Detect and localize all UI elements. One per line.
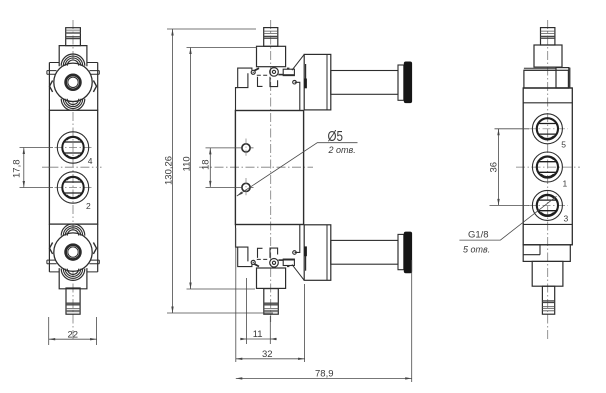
centerline horizontal center view — [199, 166, 313, 168]
re-draw crosshairs over body fill — [55, 148, 92, 188]
body (right view) — [523, 88, 572, 245]
body (center view) — [235, 111, 303, 225]
svg-text:1: 1 — [563, 178, 568, 188]
svg-text:4: 4 — [88, 156, 93, 166]
dimension 11 — [240, 278, 277, 344]
step under B — [270, 77, 278, 87]
side chevrons — [50, 81, 97, 92]
pivot B — [270, 68, 279, 77]
svg-text:110: 110 — [182, 156, 193, 171]
pivot A — [251, 70, 255, 74]
right housing step — [295, 82, 300, 110]
port 4 (left view) — [57, 132, 88, 163]
stem bottom (center view) — [264, 289, 279, 315]
svg-text:36: 36 — [489, 162, 500, 173]
dimension 22 (left view) — [49, 317, 97, 345]
lever rect — [283, 69, 294, 75]
centerline vertical center view — [270, 20, 272, 322]
dimension 18 — [201, 148, 254, 188]
assembly bottom — [523, 87, 572, 89]
stem top — [66, 28, 81, 46]
top assembly (right view) — [523, 28, 572, 88]
port 2 (left view) — [57, 172, 88, 203]
knob inner rings — [66, 75, 81, 90]
port 1 — [532, 152, 562, 182]
flange — [398, 65, 404, 100]
wide tier — [524, 70, 569, 88]
raised right rect — [556, 68, 569, 88]
dimension 130,26 — [164, 29, 274, 313]
centerline horizontal right view — [516, 166, 580, 168]
svg-text:11: 11 — [253, 329, 263, 340]
svg-text:18: 18 — [201, 159, 212, 170]
narrow block bottom — [532, 261, 563, 286]
port 2 crosshair — [55, 187, 92, 189]
hole 1 — [242, 144, 250, 152]
body (left view) — [49, 110, 97, 224]
left bracket — [236, 68, 252, 110]
plate — [524, 68, 556, 70]
svg-text:5 отв.: 5 отв. — [463, 244, 490, 254]
divider top — [523, 102, 572, 104]
bracket lines — [49, 62, 97, 64]
svg-text:78,9: 78,9 — [315, 368, 334, 379]
centerline horizontal left view — [42, 166, 104, 168]
black cap — [404, 62, 412, 104]
plunger cylinder — [331, 71, 398, 95]
bottom assembly (right view) — [523, 245, 572, 314]
port 4 crosshair — [55, 147, 92, 149]
port 5 crosshair — [528, 128, 568, 130]
dimension 17.8 (left view) — [12, 148, 54, 188]
top knob assembly (left view) — [47, 28, 99, 111]
port 3 crosshair — [528, 204, 568, 206]
svg-text:5: 5 — [561, 140, 566, 150]
small circle C — [293, 80, 297, 84]
stem — [541, 28, 555, 45]
dimension 78,9 — [236, 260, 412, 382]
knob circle — [54, 63, 92, 101]
svg-text:130,26: 130,26 — [164, 156, 175, 185]
block — [257, 46, 286, 66]
stem bottom — [542, 286, 554, 314]
bottom knob assembly (left view, mirrored) — [47, 224, 99, 289]
svg-text:G1/8: G1/8 — [468, 230, 489, 241]
svg-text:2: 2 — [86, 201, 91, 211]
svg-text:32: 32 — [262, 349, 273, 360]
svg-text:22: 22 — [68, 329, 79, 340]
diagonal to solenoid — [292, 54, 304, 70]
dimension 110 — [182, 48, 258, 290]
stem — [264, 28, 278, 47]
solenoid block — [304, 54, 331, 110]
svg-text:2 отв.: 2 отв. — [328, 145, 356, 155]
top actuator + solenoid (center view) — [236, 28, 413, 111]
svg-text:17,8: 17,8 — [12, 160, 23, 179]
dashed link — [257, 74, 269, 76]
svg-text:Ø5: Ø5 — [328, 128, 343, 145]
block top — [59, 46, 87, 67]
dimension 36 — [489, 129, 530, 206]
centerline vertical right view — [547, 20, 549, 341]
leader Ø5 / 2 otv — [237, 128, 358, 196]
hole 2 — [242, 183, 250, 191]
step under A — [258, 77, 263, 87]
divider bottom — [523, 223, 572, 225]
port 3 — [532, 190, 562, 220]
centerline vertical left view — [72, 20, 74, 341]
leader G1/8 / 5 otv — [459, 196, 556, 254]
svg-text:3: 3 — [564, 213, 569, 223]
port 5 — [532, 114, 562, 144]
narrow block — [534, 45, 562, 67]
bottom actuator + solenoid (center view, mirrored) — [236, 224, 413, 288]
stem bottom (left view) — [66, 288, 80, 314]
bellows dome arcs — [61, 54, 85, 66]
dimension 32 — [236, 228, 305, 362]
